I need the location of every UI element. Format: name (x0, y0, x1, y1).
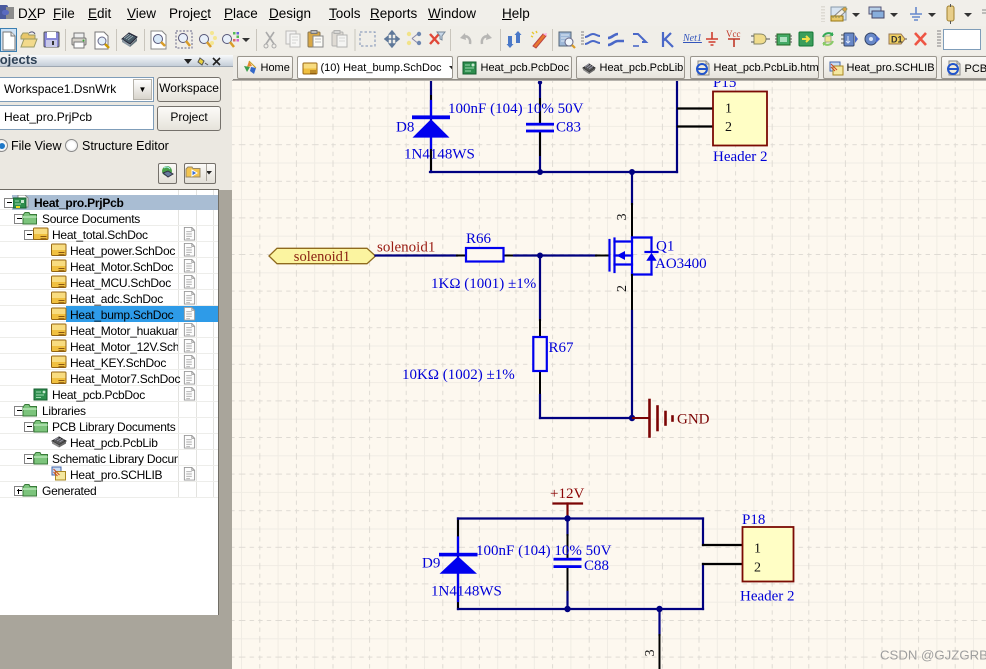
capacitor C83 pins (539, 99, 541, 123)
svg-text:1N4148WS: 1N4148WS (404, 147, 475, 163)
wire right riser top (pin1) (702, 519, 704, 546)
junction C83 rail (537, 169, 543, 175)
svg-text:3: 3 (615, 214, 630, 221)
svg-text:10KΩ (1002) ±1%: 10KΩ (1002) ±1% (402, 367, 515, 383)
svg-text:Q1: Q1 (656, 239, 674, 255)
svg-text:CSDN @GJZGRB: CSDN @GJZGRB (880, 648, 986, 663)
capacitor C88 plates (554, 558, 582, 561)
svg-text:C88: C88 (584, 558, 609, 574)
connector P15 body (713, 92, 767, 146)
wire port to R66 (376, 254, 458, 256)
wire drain vertical (631, 172, 633, 204)
top border line under tabs (232, 80, 986, 82)
capacitor C88 pins (566, 519, 568, 536)
wire left branch D9 (457, 519, 459, 610)
junction R67 tap (537, 253, 543, 259)
svg-text:D1: D1 (891, 35, 903, 45)
wire R66 to gate (514, 254, 596, 256)
svg-text:1: 1 (754, 542, 761, 557)
svg-text:AO3400: AO3400 (655, 256, 707, 272)
canvas top edge cover (232, 80, 986, 81)
connector P18 body (743, 527, 794, 582)
svg-text:GND: GND (677, 412, 710, 428)
svg-text:R66: R66 (466, 231, 492, 247)
pin 3 lead (lower mosfet) (659, 635, 661, 669)
svg-text:solenoid1: solenoid1 (294, 249, 350, 265)
svg-text:C83: C83 (556, 120, 581, 136)
wire ground rail (540, 417, 632, 419)
svg-text:D9: D9 (422, 556, 440, 572)
svg-text:Header 2: Header 2 (713, 149, 768, 165)
wire R67 bottom (539, 395, 541, 418)
wire +12V rail (bottom circuit) (458, 517, 703, 519)
wire right riser to header (676, 81, 678, 172)
node stub top C83 (538, 80, 542, 84)
wire D8 branch vertical (430, 81, 432, 172)
svg-text:+12V: +12V (550, 486, 584, 502)
diode D9 body (457, 538, 459, 554)
resistor R67 leads (539, 320, 541, 337)
canvas top edge cover (232, 105, 986, 108)
wire C88 down (566, 592, 568, 609)
svg-text:P15: P15 (713, 80, 736, 91)
svg-text:2: 2 (725, 120, 732, 135)
junction pin3 tap (656, 606, 662, 612)
diode D9 pins (457, 521, 459, 538)
wire +12V rail horizontal (430, 171, 677, 173)
wire gate tap down to R67 (539, 256, 541, 321)
wire C83 branch vertical (539, 81, 541, 123)
svg-text:Header 2: Header 2 (740, 589, 795, 605)
diode D8 body (430, 101, 432, 116)
port solenoid1 (269, 248, 376, 263)
pin gate lead Q1 (596, 255, 609, 257)
wire source vertical (631, 311, 633, 418)
svg-text:3: 3 (643, 650, 658, 657)
junction drain rail (629, 169, 635, 175)
svg-text:P18: P18 (742, 512, 765, 528)
junction C88 bottom (564, 606, 570, 612)
ground GND power port (633, 400, 673, 437)
junction +12V tap (564, 515, 570, 521)
canvas top edge cover (232, 79, 986, 82)
header P15 pin leads (678, 107, 713, 109)
svg-text:Net1: Net1 (682, 33, 702, 44)
resistor R67 body (533, 337, 547, 371)
svg-text:2: 2 (615, 285, 630, 292)
svg-text:100nF (104) 10% 50V: 100nF (104) 10% 50V (448, 101, 584, 117)
wire bottom rail (458, 608, 703, 610)
svg-text:2: 2 (754, 561, 761, 576)
wire pin3 drop (658, 609, 660, 635)
header P18 pin leads (703, 544, 743, 546)
wire right riser bottom (pin2) (702, 564, 704, 609)
svg-text:100nF (104) 10% 50V: 100nF (104) 10% 50V (476, 543, 612, 559)
resistor R66 leads (457, 255, 466, 257)
svg-text:R67: R67 (549, 340, 575, 356)
resistor R66 body (466, 248, 504, 262)
svg-text:1: 1 (725, 102, 732, 117)
svg-text:Vcc: Vcc (726, 29, 741, 39)
junction ground node (629, 415, 635, 421)
svg-text:1KΩ (1001) ±1%: 1KΩ (1001) ±1% (431, 276, 536, 292)
transistor Q1 body (610, 238, 658, 276)
svg-text:D8: D8 (396, 120, 414, 136)
diode D8 pins (430, 96, 432, 101)
svg-text:1N4148WS: 1N4148WS (431, 584, 502, 600)
capacitor C83 plates (526, 123, 554, 126)
pin 3 lead Q1 (631, 204, 633, 238)
pin 2 lead Q1 (631, 275, 633, 311)
svg-text:solenoid1: solenoid1 (377, 240, 435, 256)
sheet background (232, 80, 986, 669)
